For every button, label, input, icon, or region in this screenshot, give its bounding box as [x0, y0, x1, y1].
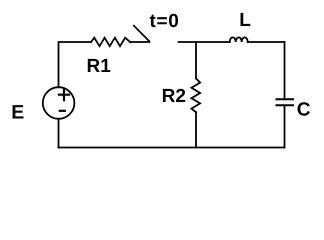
wire switch to inductor	[179, 41, 230, 43]
source minus sign	[60, 110, 65, 112]
wire right side down to capacitor	[284, 42, 286, 98]
wire R1 to switch pivot	[130, 41, 149, 43]
wire junction to R2	[195, 42, 197, 78]
inductor L	[230, 37, 248, 42]
switch blade t=0	[134, 26, 149, 42]
source plus sign	[59, 89, 69, 100]
wire R2 to bottom	[195, 112, 197, 147]
svg-text:R2: R2	[162, 86, 186, 107]
svg-text:R1: R1	[87, 56, 112, 77]
svg-text:t=0: t=0	[149, 11, 179, 32]
svg-text:C: C	[297, 100, 311, 121]
wire source bottom lead	[58, 119, 60, 148]
wire top-left from source to R1	[59, 42, 92, 87]
capacitor C bottom plate	[277, 104, 294, 106]
resistor R2	[191, 78, 200, 112]
wire capacitor to bottom-right corner	[284, 106, 286, 148]
svg-text:E: E	[11, 101, 24, 123]
wire inductor to top-right corner	[248, 41, 285, 43]
bottom wire	[59, 147, 285, 149]
capacitor C top plate	[277, 98, 294, 100]
resistor R1	[91, 38, 130, 47]
voltage source E circle	[43, 87, 75, 119]
svg-text:L: L	[239, 10, 251, 31]
